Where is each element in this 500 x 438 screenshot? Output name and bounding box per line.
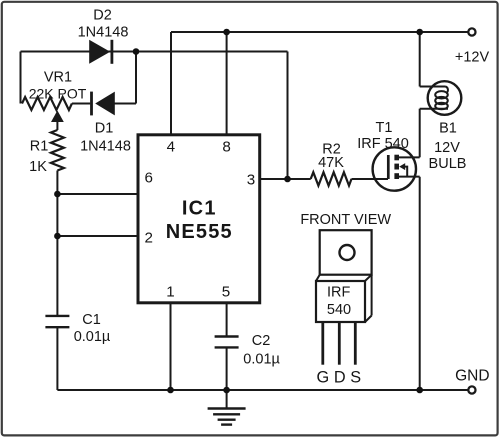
- svg-text:R1: R1: [30, 139, 49, 155]
- svg-text:1N4148: 1N4148: [78, 24, 129, 40]
- svg-text:1K: 1K: [29, 159, 47, 175]
- svg-text:2: 2: [144, 230, 152, 247]
- svg-text:0.01µ: 0.01µ: [243, 352, 280, 368]
- svg-text:IRF: IRF: [327, 285, 351, 301]
- svg-text:IC1: IC1: [182, 197, 217, 219]
- svg-text:D2: D2: [93, 8, 112, 24]
- svg-text:540: 540: [327, 302, 351, 318]
- svg-text:VR1: VR1: [44, 69, 72, 85]
- svg-text:IRF 540: IRF 540: [357, 136, 409, 152]
- svg-text:D: D: [334, 368, 346, 386]
- svg-text:G: G: [316, 368, 329, 386]
- svg-text:5: 5: [222, 283, 230, 300]
- svg-text:3: 3: [247, 171, 255, 188]
- svg-text:12V: 12V: [434, 140, 460, 156]
- svg-text:NE555: NE555: [166, 221, 233, 243]
- svg-text:BULB: BULB: [429, 156, 467, 172]
- svg-text:47K: 47K: [318, 155, 344, 171]
- svg-text:1N4148: 1N4148: [80, 138, 131, 154]
- svg-text:FRONT VIEW: FRONT VIEW: [300, 212, 391, 228]
- svg-text:+12V: +12V: [455, 50, 490, 66]
- svg-text:D1: D1: [95, 120, 114, 136]
- svg-text:4: 4: [167, 138, 175, 155]
- svg-text:C1: C1: [82, 312, 101, 328]
- svg-text:C2: C2: [252, 333, 271, 349]
- svg-text:GND: GND: [455, 368, 489, 385]
- svg-text:T1: T1: [376, 120, 393, 136]
- svg-text:S: S: [350, 368, 361, 386]
- svg-text:6: 6: [144, 170, 152, 187]
- svg-text:22K POT: 22K POT: [29, 85, 87, 101]
- svg-text:1: 1: [166, 283, 174, 300]
- svg-text:0.01µ: 0.01µ: [74, 329, 111, 345]
- svg-text:B1: B1: [439, 120, 457, 136]
- svg-text:8: 8: [222, 138, 230, 155]
